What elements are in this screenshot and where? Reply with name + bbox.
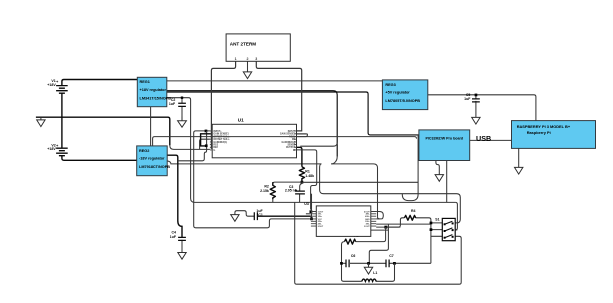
svg-text:RG: RG (292, 139, 296, 141)
svg-text:U1: U1 (238, 118, 244, 123)
resistor R4 (horizontal) (404, 215, 415, 220)
wire R4 right to S1 vertical (416, 218, 431, 263)
wire R1 bottom to junction (301, 178, 303, 182)
wire C7 right to S1 vert (389, 262, 431, 264)
wire branch up to U1 row4 (200, 139, 210, 149)
svg-text:U3: U3 (304, 202, 309, 206)
capacitor C5 (472, 99, 480, 102)
svg-text:-18V regulator: -18V regulator (139, 157, 165, 161)
wire U1 row3 long crossing line (153, 134, 308, 146)
svg-text:+5V regulator: +5V regulator (385, 91, 410, 95)
resistor R1 (vertical) (299, 167, 304, 179)
ground under RPi (515, 167, 523, 174)
svg-text:2OUT: 2OUT (318, 226, 324, 228)
svg-text:RG(1): RG(1) (289, 136, 295, 138)
wire yB corner to U3 row4 dot vert (311, 194, 313, 219)
wire PIC to RPi USB (470, 139, 512, 141)
svg-text:C7: C7 (389, 254, 394, 258)
svg-text:REF: REF (213, 147, 218, 149)
wire S1 row2 right to rail riser (455, 229, 457, 231)
svg-text:2.05 nF: 2.05 nF (285, 188, 298, 192)
svg-text:1uF: 1uF (169, 102, 176, 106)
svg-text:3OUT: 3OUT (364, 226, 370, 228)
wire U1 OUTPUT to R1 (297, 147, 302, 167)
wire C5 to ground (475, 101, 477, 118)
wire U1 left black bracket (201, 134, 212, 146)
junction dot C5 (475, 94, 478, 97)
antenna ANT1 box (226, 34, 290, 61)
svg-text:IO: IO (293, 150, 296, 152)
junction dot row7 (384, 226, 387, 229)
junction dot U3 row1 (310, 210, 313, 213)
svg-text:USB: USB (476, 134, 491, 143)
wire y230 line (371, 229, 389, 231)
svg-text:L1: L1 (373, 271, 377, 275)
inductor L1 (362, 279, 376, 281)
svg-text:Raspberry Pi: Raspberry Pi (527, 130, 551, 135)
wire C5 stem (475, 95, 477, 99)
svg-text:S1: S1 (435, 218, 439, 222)
wire +18V REG1 to REG3 input (167, 80, 383, 82)
junction dot C6 left (340, 262, 343, 265)
junction dot C2 (181, 97, 183, 99)
battery V1 (56, 86, 68, 94)
wire U3 row4 right stub (376, 218, 379, 220)
capacitor C4 (178, 237, 186, 240)
wire V1 bottom to rail (61, 93, 63, 117)
svg-text:INPUT+: INPUT+ (213, 131, 222, 133)
resistor R3 (horizontal) (345, 239, 356, 244)
wire S1 left stubs (431, 223, 442, 236)
svg-text:REG2: REG2 (139, 149, 149, 153)
junction dot U1 left row6 (205, 144, 208, 147)
svg-text:3: 3 (255, 57, 257, 61)
wire C3 bottom to rail (299, 194, 301, 203)
wire left ground stem (37, 117, 45, 126)
wire antenna pin3 down-right to U1 INPUT- (256, 61, 301, 131)
wire antenna pin2 to ground (247, 61, 249, 72)
battery V2 (56, 148, 68, 156)
wire RPi gnd (518, 148, 520, 167)
wire R2 bottom to rail (272, 199, 274, 202)
svg-text:RG2: RG2 (213, 145, 218, 147)
wire antenna pin1 down-left (211, 61, 235, 149)
ground under C2 (178, 117, 187, 128)
svg-text:C6: C6 (351, 254, 356, 258)
junction dot U3 row4 (310, 217, 313, 220)
wire C6 right to gnd junction to C7 left (350, 262, 386, 264)
wire U3 row6 to S1 vertical (376, 223, 431, 225)
wire U1 row2 loop right (297, 133, 308, 135)
Raspberry Pi board (512, 121, 596, 149)
wire R3 (356, 227, 386, 242)
capacitor C7 (horizontal) (386, 260, 389, 268)
wire C1 right to U3 inputs (258, 215, 311, 217)
svg-text:OUTPUT: OUTPUT (286, 147, 296, 149)
svg-text:1.48k: 1.48k (305, 174, 314, 178)
wire PIC pin2 down to rail (446, 161, 448, 203)
svg-text:2.15k: 2.15k (260, 189, 269, 193)
svg-text:OFFSET NULL-: OFFSET NULL- (213, 139, 230, 141)
junction dot R1 bottom (301, 181, 304, 184)
wire PIC gnd hook (436, 161, 439, 175)
ground at C1 (231, 215, 239, 222)
wire R3 left vert C6 column (342, 242, 362, 282)
wire U1 row8 to U3 row1 (297, 150, 317, 210)
IC U1 (212, 124, 296, 158)
svg-text:REG1: REG1 (140, 80, 150, 84)
wire rail C6 left (342, 262, 346, 264)
wire R2 top line (273, 182, 302, 185)
wire V2 bottom to REG2 input (62, 156, 137, 161)
ground under C4 (178, 253, 186, 260)
wire REG2 out2 branch up to INPUT+ dot (staple) (178, 131, 207, 161)
svg-text:LM341T/15/NOPB: LM341T/15/NOPB (140, 96, 172, 100)
switch S1 (442, 218, 455, 240)
svg-text:RASPBERRY PI 3 MODEL B+: RASPBERRY PI 3 MODEL B+ (517, 124, 571, 129)
capacitor C1 (U3 input, horizontal) (254, 212, 257, 220)
wire REG1 pin3 to C2 junction and down to rail (167, 98, 456, 203)
wire vert 388 down to 250 elbow to filter gnd junction (369, 224, 388, 263)
wire 337 vert lands on -18V line (331, 157, 337, 164)
svg-text:GAIN SENSE1: GAIN SENSE1 (213, 133, 229, 136)
PIC32 board (419, 130, 470, 161)
wire U3 row7 to dot (376, 226, 400, 228)
wire REG1 output band lower (to PIC32 via x368) (167, 92, 419, 135)
regulator REG2 (137, 146, 168, 176)
junction dot C7 right (393, 262, 396, 265)
wire 379 vert from 161 line (378, 217, 380, 219)
svg-text:+18V regulator: +18V regulator (140, 88, 167, 92)
junction dots on S1 vertical (430, 222, 433, 225)
wire C3 stem (300, 184, 302, 191)
wire V1 to REG1 input (62, 80, 137, 86)
REG3 output to RPi (428, 95, 536, 121)
wire U3 right hook feedback (376, 212, 383, 219)
svg-text:GAIN SENSE2: GAIN SENSE2 (280, 133, 296, 136)
svg-text:OFFSET NULL+: OFFSET NULL+ (213, 136, 231, 138)
svg-text:1uF: 1uF (464, 97, 471, 101)
ground under PIC (435, 175, 443, 182)
svg-text:C1: C1 (258, 213, 263, 217)
wire REG1 output band upper (to U1 supply via x337) (167, 91, 337, 157)
svg-text:INPUT-: INPUT- (288, 131, 296, 133)
svg-text:1uF: 1uF (170, 235, 177, 239)
svg-text:ANT 2TERM: ANT 2TERM (230, 41, 256, 46)
wire V2 top to rail (61, 117, 63, 148)
wire 319 vert, yB line to S1 row1 (320, 164, 461, 223)
svg-text:PIC32MZ/W Pro board: PIC32MZ/W Pro board (426, 136, 464, 140)
svg-text:1: 1 (235, 57, 237, 61)
svg-text:R4: R4 (411, 209, 416, 213)
junction dot INPUT+ (205, 130, 208, 133)
svg-text:LM7918CT/NOPB: LM7918CT/NOPB (139, 165, 170, 169)
junction dot filter mid (367, 262, 370, 265)
ground under antenna (243, 72, 251, 79)
wire crossing over U1 body (212, 136, 296, 138)
svg-text:4IN+: 4IN+ (365, 215, 370, 218)
ground under C5 (472, 117, 480, 124)
svg-text:GAIN/REF(2): GAIN/REF(2) (282, 141, 296, 144)
wire S1 row3 right down to bottom loop (295, 202, 462, 284)
wire yA junction to PIC vert (302, 181, 418, 183)
svg-text:LM7805T/5.0/NOPB: LM7805T/5.0/NOPB (385, 99, 420, 103)
wire filter gnd stem (368, 263, 370, 267)
svg-text:SENSE: SENSE (288, 145, 296, 147)
wire gnd rail down to U1 row8 (170, 145, 210, 149)
capacitor C3 (vertical, wide plates) (295, 191, 305, 194)
wire U1 row3 to PIC gnd vert (297, 137, 417, 139)
svg-text:REG3: REG3 (385, 83, 395, 87)
svg-text:2: 2 (247, 57, 249, 61)
capacitor C2 (REG1 bypass) (178, 103, 186, 106)
ground filter (364, 267, 372, 274)
regulator REG3 (382, 80, 427, 110)
wire U1 INPUT+ node long vertical to bottom run (194, 131, 310, 228)
svg-text:GAIN/REF(1): GAIN/REF(1) (213, 141, 227, 144)
svg-text:1IN+: 1IN+ (318, 216, 323, 218)
resistor R2 (vertical) (270, 182, 275, 199)
wire PIC left branch down to U jog and left line (402, 135, 418, 201)
wire C2 to ground (181, 106, 183, 121)
wire U3 VCC jog from bottom run (310, 218, 311, 220)
wire rail right corner down to S1 row2 (455, 202, 457, 230)
wire U3 row2 ext (306, 213, 311, 215)
wire C2 stem from junction (181, 98, 183, 104)
wire L1 right riser (376, 263, 395, 281)
wire R4 left elbow (386, 218, 405, 227)
IC U3 (316, 206, 371, 237)
wire REG2 output to C4 column (167, 155, 182, 237)
wire C1 ground riser (235, 211, 254, 217)
wire ground rail left (36, 117, 170, 145)
capacitor C6 (horizontal) (346, 260, 349, 268)
wire -18V line to 378 corner down to U3 area (331, 164, 377, 217)
regulator REG1 (137, 77, 167, 106)
wire REG2 out2: -18V long line under U1 (167, 161, 322, 164)
wire REG1 gnd pin down through rail to REG2 top pin (150, 107, 152, 146)
wire C4 bottom to ground (181, 240, 183, 253)
wire branch to U1 right supply pin (300, 142, 337, 146)
